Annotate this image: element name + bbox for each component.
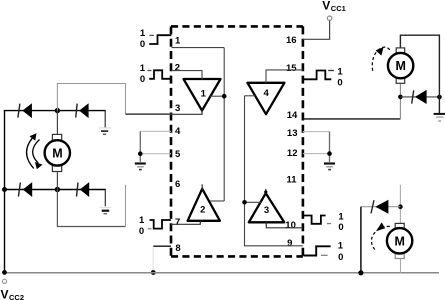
VCC1 terminal circle [327, 16, 331, 20]
node enable1 dot [222, 94, 227, 99]
level tick 1 pin2 [148, 70, 152, 72]
wire enable to driver4 side [245, 95, 256, 97]
motor M3 body [387, 228, 412, 253]
level tick 1 pin15 [328, 70, 334, 72]
wire M3 diode [361, 206, 401, 208]
svg-text:1: 1 [338, 241, 344, 252]
svg-text:1: 1 [338, 211, 344, 222]
bottom diode rail [4, 189, 106, 191]
diode D1 top-left [18, 103, 32, 118]
diode D6 [371, 200, 388, 214]
svg-text:2: 2 [175, 63, 180, 74]
node D6 rail dot [358, 270, 363, 275]
wire top rail to ground drop [104, 111, 106, 128]
ground M2 [434, 114, 445, 121]
motor M1 terminal blocks [52, 134, 61, 140]
wire 3Y riser to motor M3 [399, 185, 401, 224]
svg-text:12: 12 [287, 148, 298, 159]
svg-text:9: 9 [287, 238, 292, 249]
wire 2Y path bottom [57, 190, 125, 227]
svg-text:0: 0 [140, 39, 145, 50]
wire VCC1 to pin16 [303, 21, 330, 40]
wire pin8 stub [153, 245, 171, 247]
svg-text:1: 1 [140, 28, 146, 39]
svg-text:4: 4 [175, 126, 181, 137]
svg-text:0: 0 [139, 226, 144, 237]
wire enable to driver1 side [210, 95, 224, 97]
node M2 diode junction [398, 95, 403, 100]
wire driver1 output stub to pin3 [201, 109, 203, 114]
wire pin14 to motor M2 [303, 118, 401, 120]
wire pin5 to ground [140, 153, 171, 155]
svg-text:1: 1 [139, 215, 145, 226]
svg-text:13: 13 [287, 128, 298, 139]
svg-text:8: 8 [175, 243, 180, 254]
wire enable 1,2EN vertical [223, 48, 225, 201]
level tick 0 pin10 [327, 223, 331, 225]
wire pin3 outside [126, 113, 172, 115]
node M3 diode junction [398, 204, 403, 209]
node bottom rail dot motor [55, 187, 60, 192]
wire M2 diode [400, 96, 439, 98]
svg-text:0: 0 [338, 222, 343, 233]
svg-text:3: 3 [264, 205, 269, 216]
waveform pin7 input inverted pulse [150, 220, 171, 229]
waveform pin9 enable step [304, 246, 331, 255]
svg-text:1: 1 [201, 89, 207, 100]
svg-text:CC1: CC1 [331, 4, 346, 13]
wire 2Y riser [125, 185, 127, 227]
driver U1B triangle 2 [188, 189, 220, 221]
svg-text:1: 1 [337, 66, 343, 77]
wire pin2 input 1A [172, 71, 203, 80]
wire 1Y path top [57, 84, 125, 115]
wire pin9 enable 3,4EN [245, 96, 303, 246]
svg-text:0: 0 [338, 252, 343, 263]
wire pin10 input 3A [266, 222, 303, 228]
svg-text:1: 1 [175, 35, 181, 46]
node driver3 apex dot [264, 190, 267, 193]
node gnd right dot [327, 151, 332, 156]
ground bottom bridge [100, 208, 112, 214]
wire driver2 output stub [201, 184, 203, 190]
wire gnd drop left [139, 131, 141, 162]
motor M2 terminal blocks [396, 48, 405, 53]
motor M1 body [45, 140, 70, 165]
svg-text:4: 4 [264, 88, 270, 99]
svg-text:M: M [395, 59, 405, 73]
svg-text:M: M [394, 234, 404, 248]
diode D5 [412, 90, 427, 104]
svg-text:15: 15 [286, 63, 297, 74]
wire M2 top [400, 35, 439, 114]
svg-text:3: 3 [175, 103, 180, 114]
wire pin15 input 4A [266, 70, 303, 83]
IC U1 dashed outline [171, 26, 303, 256]
svg-text:0: 0 [337, 78, 342, 89]
waveform pin10 input inverted pulse [304, 216, 326, 224]
svg-text:0: 0 [140, 74, 145, 85]
svg-text:11: 11 [286, 175, 297, 186]
wire pin7 input 2A [171, 221, 200, 225]
motor M1 stem bottom [56, 172, 58, 190]
VCC2 rail [5, 272, 440, 274]
svg-text:V: V [322, 0, 330, 12]
svg-text:CC2: CC2 [9, 293, 24, 300]
motor M2 rotation arrow [372, 47, 390, 71]
wire pin1 enable 1,2EN horizontal inside [172, 47, 225, 49]
level tick 0 pin7 [148, 228, 152, 230]
svg-text:5: 5 [175, 149, 181, 160]
motor M2 body [388, 53, 413, 78]
wire D6 cathode to rail [360, 207, 362, 273]
svg-text:M: M [52, 147, 62, 161]
svg-text:7: 7 [175, 217, 180, 228]
svg-text:14: 14 [287, 110, 298, 121]
top diode rail [4, 110, 106, 112]
driver U1D triangle 4 [248, 83, 285, 114]
svg-text:2: 2 [200, 205, 205, 216]
waveform pin15 input pulse [304, 71, 332, 80]
wire gnd drop right [329, 132, 331, 162]
node VCC2 dot [2, 270, 7, 275]
diode D4 bottom-right [77, 182, 90, 197]
motor M1 rotation arrows [27, 135, 40, 169]
motor M3 rotation arrow [371, 226, 389, 250]
wire pin3 output 1Y inside [126, 113, 203, 115]
motor M2 stem bottom riser [399, 83, 401, 119]
level tick 0 pin9 [321, 254, 328, 256]
svg-text:10: 10 [285, 220, 296, 231]
wire pin4 to ground [140, 130, 171, 132]
node gnd left dot [138, 151, 143, 156]
svg-text:6: 6 [175, 179, 180, 190]
driver U1C triangle 3 [249, 193, 284, 222]
diode D3 bottom-left [18, 182, 32, 197]
wire pin13 to ground [303, 131, 330, 133]
motor M3 terminal blocks [395, 223, 404, 228]
wire enable to driver2 side [210, 200, 224, 202]
motor M1 stem top [56, 111, 58, 135]
waveform pin2 input pulse [149, 70, 171, 79]
ground top bridge [99, 128, 111, 134]
ground pins 12 13 [324, 164, 335, 170]
node pin8 rail dot [151, 270, 156, 275]
node bottom rail dot left [2, 187, 7, 192]
waveform pin1 input step [149, 35, 171, 44]
wire enable to driver3 side [245, 201, 262, 203]
VCC2 terminal circle [2, 279, 6, 283]
ground pins 4 5 [135, 164, 146, 170]
driver U1A triangle 1 [184, 79, 221, 111]
diode D2 top-right [76, 103, 89, 118]
level tick 1 pin1 [149, 34, 154, 36]
wire pin12 to ground [303, 153, 330, 155]
wire driver3 output stub [265, 189, 267, 194]
motor M3 stem bottom [400, 259, 402, 273]
svg-text:16: 16 [286, 35, 297, 46]
node enable3 dot [242, 200, 247, 205]
wire bottom rail corner to ground [104, 190, 106, 207]
left rail [4, 111, 6, 273]
node top rail dot [55, 108, 60, 113]
svg-text:V: V [1, 287, 9, 300]
wire pin8 drop to VCC2 rail [152, 246, 154, 273]
svg-text:1: 1 [140, 63, 146, 74]
node D5 right dot [437, 95, 442, 100]
